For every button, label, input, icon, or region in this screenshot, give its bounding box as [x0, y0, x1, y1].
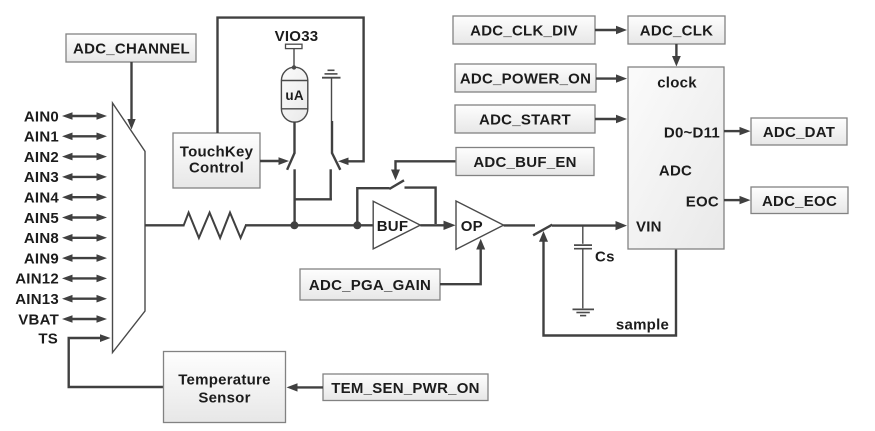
node B junction	[353, 221, 361, 229]
wire ADC_START to ADC	[595, 115, 627, 123]
wire ADC_BUF_EN to switch S3	[391, 161, 456, 180]
svg-text:D0~D11: D0~D11	[664, 124, 720, 141]
svg-text:ADC_PGA_GAIN: ADC_PGA_GAIN	[309, 277, 431, 294]
svg-text:AIN1: AIN1	[24, 129, 59, 146]
wire sample switch to VIN	[552, 221, 627, 230]
current source uA	[281, 65, 307, 122]
svg-text:ADC_CHANNEL: ADC_CHANNEL	[73, 41, 190, 58]
wire TouchKey Control to touch switch	[260, 157, 289, 165]
ground (Cs)	[573, 309, 595, 315]
wire mux output	[145, 224, 185, 226]
svg-text:AIN2: AIN2	[24, 149, 59, 166]
box TEM_SEN_PWR_ON	[323, 374, 488, 401]
wire AIN0 double arrow	[62, 112, 107, 120]
wire resistor to BUF	[245, 224, 373, 226]
wire ground to reference switch	[331, 121, 333, 154]
svg-text:VIO33: VIO33	[275, 28, 319, 45]
svg-text:VIN: VIN	[636, 219, 662, 236]
svg-text:ADC_DAT: ADC_DAT	[763, 124, 835, 141]
wire TouchKey feedback loop to reference switch	[218, 18, 364, 166]
resistor R input	[184, 213, 246, 238]
wire AIN5 double arrow	[62, 214, 107, 222]
svg-text:Temperature: Temperature	[178, 372, 271, 389]
wire TS from Temperature Sensor to mux	[69, 334, 164, 387]
svg-text:ADC_EOC: ADC_EOC	[762, 193, 837, 210]
svg-text:AIN5: AIN5	[24, 210, 59, 227]
svg-text:AIN9: AIN9	[24, 250, 59, 267]
box ADC converter U1	[628, 67, 724, 249]
box ADC_EOC	[751, 187, 848, 214]
switch S3 buffer bypass	[389, 180, 404, 189]
switch S2 reference	[332, 153, 340, 170]
wire AIN2 double arrow	[62, 153, 107, 161]
box TouchKey Control	[173, 133, 260, 188]
wire current source to touch switch	[293, 122, 295, 154]
ground (VIO33 branch)	[322, 70, 341, 121]
box Temperature Sensor	[164, 352, 286, 423]
box ADC_START	[455, 105, 595, 133]
wire VBAT double arrow	[62, 315, 107, 323]
svg-text:Sensor: Sensor	[198, 390, 250, 407]
svg-text:VBAT: VBAT	[18, 311, 59, 328]
svg-text:AIN0: AIN0	[24, 108, 59, 125]
box ADC_CLK	[628, 16, 725, 44]
wire switch bridge	[294, 198, 332, 200]
svg-text:AIN8: AIN8	[24, 230, 59, 247]
wire AIN9 double arrow	[62, 254, 107, 262]
wire ADC_CHANNEL to mux	[127, 62, 135, 130]
svg-text:ADC: ADC	[659, 163, 692, 180]
wire AIN12 double arrow	[62, 275, 107, 283]
box ADC_POWER_ON	[455, 64, 596, 92]
svg-text:TEM_SEN_PWR_ON: TEM_SEN_PWR_ON	[331, 380, 480, 397]
power VIO33	[275, 28, 319, 67]
wire OP to sample switch	[504, 224, 535, 226]
svg-text:EOC: EOC	[686, 193, 719, 210]
svg-text:ADC_START: ADC_START	[479, 112, 571, 129]
svg-text:ADC_CLK_DIV: ADC_CLK_DIV	[470, 23, 578, 40]
box ADC_DAT	[751, 118, 847, 145]
svg-text:OP: OP	[461, 218, 483, 235]
switch S1 touch	[287, 153, 294, 170]
svg-text:clock: clock	[657, 75, 697, 92]
wire BUF bypass left	[357, 188, 389, 225]
wire ADC_CLK_DIV to ADC_CLK	[595, 26, 627, 34]
svg-text:AIN12: AIN12	[15, 271, 59, 288]
wire AIN3 double arrow	[62, 173, 107, 181]
op-amp OP	[456, 201, 504, 249]
svg-text:Control: Control	[189, 160, 244, 177]
wire switch S1 to node A	[293, 169, 295, 225]
box ADC_BUF_EN	[456, 148, 594, 176]
capacitor Cs	[574, 227, 615, 309]
wire TEM_SEN_PWR_ON to Temperature Sensor	[287, 383, 324, 391]
wire switch S2 bottom	[330, 169, 332, 200]
svg-text:uA: uA	[285, 88, 303, 103]
wire sample feedback loop	[539, 231, 676, 336]
svg-text:BUF: BUF	[377, 218, 409, 235]
wire BUF bypass right	[405, 188, 436, 224]
wire AIN13 double arrow	[62, 295, 107, 303]
svg-text:TS: TS	[38, 330, 58, 347]
wire AIN1 double arrow	[62, 133, 107, 141]
svg-text:Cs: Cs	[595, 249, 615, 266]
wire ADC_PGA_GAIN to OP	[440, 239, 485, 284]
svg-text:ADC_POWER_ON: ADC_POWER_ON	[460, 71, 591, 88]
svg-text:AIN13: AIN13	[15, 291, 59, 308]
wire ADC D0~D11 to ADC_DAT	[724, 127, 751, 135]
svg-text:ADC_CLK: ADC_CLK	[640, 23, 713, 40]
box ADC_PGA_GAIN	[300, 269, 440, 300]
wire AIN4 double arrow	[62, 193, 107, 201]
wire AIN8 double arrow	[62, 234, 107, 242]
switch S4 sample	[533, 225, 552, 236]
mux (analog input multiplexer)	[113, 103, 146, 353]
box ADC_CHANNEL	[66, 34, 196, 62]
svg-text:AIN4: AIN4	[24, 190, 60, 207]
wire ADC_POWER_ON to ADC	[596, 74, 627, 82]
wire ADC_CLK to ADC clock pin	[672, 44, 681, 67]
node A junction	[290, 221, 298, 229]
svg-text:sample: sample	[616, 317, 669, 334]
wire BUF to OP	[420, 221, 455, 230]
svg-text:ADC_BUF_EN: ADC_BUF_EN	[473, 154, 576, 171]
box ADC_CLK_DIV	[453, 16, 595, 44]
wire ADC EOC to ADC_EOC	[724, 196, 751, 204]
op-amp BUF	[373, 201, 420, 249]
svg-text:AIN3: AIN3	[24, 169, 59, 186]
svg-text:TouchKey: TouchKey	[180, 144, 254, 161]
